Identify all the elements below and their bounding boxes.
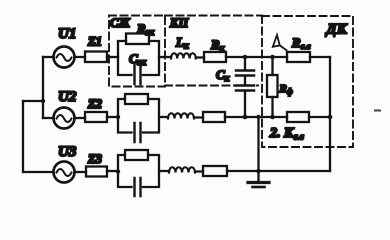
junction dot Cк row2 xyxy=(243,115,248,120)
wire xyxy=(159,56,171,58)
source U1 xyxy=(54,47,75,68)
wire xyxy=(226,56,287,58)
capacitor row2 xyxy=(135,123,141,142)
resistor Rэк xyxy=(126,34,149,45)
wire xyxy=(75,117,86,119)
wire output bus xyxy=(329,57,331,171)
wire xyxy=(309,116,330,118)
wire U3 left stub xyxy=(23,171,54,173)
junction dot row2 in xyxy=(116,115,120,119)
wire xyxy=(159,170,169,172)
impedance Z3 xyxy=(86,167,107,177)
resistor Kсс row2 xyxy=(287,112,309,122)
RC tank row2 frame xyxy=(118,99,159,133)
wire xyxy=(107,170,118,172)
wire xyxy=(196,56,204,58)
capacitor row3 xyxy=(135,178,141,196)
impedance Z2 xyxy=(85,112,107,122)
wire U2 left stub xyxy=(43,117,54,119)
capacitor Cэк xyxy=(135,65,141,84)
junction dot Rф row2 xyxy=(270,115,275,120)
resistor row3 xyxy=(125,150,148,160)
wire left bus lower xyxy=(22,101,24,172)
wire xyxy=(195,170,203,172)
wire xyxy=(107,56,118,58)
junction dot left bus xyxy=(41,99,45,103)
resistor row3 series xyxy=(203,166,227,176)
wire xyxy=(75,171,87,173)
resistor row2 xyxy=(125,94,148,104)
resistor Rф xyxy=(267,57,278,117)
inductor row2 xyxy=(168,113,194,118)
svg-text:Z1: Z1 xyxy=(87,35,102,49)
RC tank row1 frame xyxy=(118,41,159,75)
junction dot gnd row3 xyxy=(256,169,261,174)
wire xyxy=(310,56,330,58)
resistor Rсс xyxy=(287,52,310,62)
wire xyxy=(225,116,287,118)
wire U1 left stub xyxy=(43,56,54,58)
inductor Lк xyxy=(171,53,196,58)
junction dot gnd row2 xyxy=(256,115,260,119)
wire left bus upper xyxy=(42,57,44,118)
impedance Z1 xyxy=(85,52,107,63)
wire xyxy=(75,56,86,58)
svg-text:КП: КП xyxy=(169,16,189,30)
svg-text:U2: U2 xyxy=(58,89,77,105)
resistor Rк xyxy=(204,52,226,62)
dashed line КП top xyxy=(165,15,262,17)
junction dot row3 in xyxy=(116,169,120,173)
inductor row3 xyxy=(169,167,195,172)
svg-text:U3: U3 xyxy=(58,144,77,160)
svg-text:Z3: Z3 xyxy=(87,152,102,166)
source U3 xyxy=(54,162,75,183)
wire xyxy=(194,116,203,118)
junction node row1/Rф xyxy=(270,55,275,60)
svg-text:СЖ: СЖ xyxy=(110,16,130,30)
ground xyxy=(248,171,269,187)
svg-text:Z2: Z2 xyxy=(87,97,102,111)
capacitor Cк xyxy=(236,57,254,117)
wire xyxy=(227,170,330,172)
resistor row2 series xyxy=(203,112,225,122)
wire xyxy=(107,116,118,118)
probe triangle xyxy=(273,35,287,50)
dashed box СЖ xyxy=(109,16,165,87)
wire left bus branch xyxy=(23,100,43,102)
svg-text:U1: U1 xyxy=(58,26,76,42)
svg-text:ДК: ДК xyxy=(325,22,348,38)
junction dot bus row2 xyxy=(328,115,333,120)
wire ground branch xyxy=(257,117,259,171)
junction node row1/Cк xyxy=(243,55,248,60)
stray mark xyxy=(375,110,380,112)
dashed box ДК xyxy=(262,16,353,147)
source U2 xyxy=(54,108,75,129)
wire xyxy=(159,116,168,118)
RC tank row3 frame xyxy=(118,155,159,187)
dashed line КП bottom xyxy=(165,85,258,87)
